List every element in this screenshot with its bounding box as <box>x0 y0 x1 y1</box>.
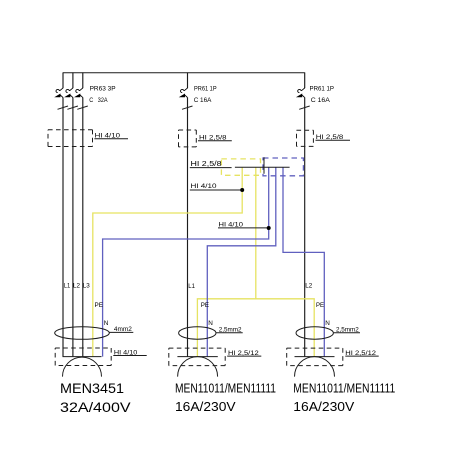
svg-text:MEN3451: MEN3451 <box>60 380 124 396</box>
socket symbol middle: semicircle <box>178 357 218 377</box>
svg-text:L1: L1 <box>64 283 71 290</box>
leader: HI 4/10 label to PE wire with junction dot <box>190 189 242 191</box>
svg-text:16A/230V: 16A/230V <box>175 399 236 414</box>
wire: PE yellow main drop <box>255 167 257 298</box>
svg-text:N: N <box>104 320 109 327</box>
socket box HI 4/10 (left) <box>55 348 111 366</box>
svg-text:PR63 3P: PR63 3P <box>90 85 117 92</box>
breaker: PR61 1P (middle) <box>180 88 192 110</box>
wire: phase L1 upper stub (middle branch) <box>187 72 189 88</box>
conduit box HI 4/10 under PR63 <box>48 130 93 147</box>
svg-text:HI 4/10: HI 4/10 <box>219 222 244 229</box>
socket box HI 2,5/12 (right) <box>287 348 343 366</box>
wire: N blue to right socket <box>283 167 324 356</box>
svg-text:HI 2,5/8: HI 2,5/8 <box>191 159 222 168</box>
svg-text:PR61 1P: PR61 1P <box>310 86 335 93</box>
wire: phase L2 upper stub (left branch) <box>72 72 74 88</box>
breaker: PR63 3P pole 2 <box>66 88 78 110</box>
wire: phase L2 main drop (left branch) <box>72 97 74 356</box>
socket symbol middle: terminal line <box>177 356 217 358</box>
conduit: yellow dashed box HI 2,5/8 <box>221 159 260 175</box>
cable marker ellipse: middle 2,5mm2 <box>179 327 216 339</box>
wire: phase L1 main drop (middle branch) <box>187 97 189 356</box>
breaker: PR63 3P pole 3 <box>76 88 88 110</box>
cable marker ellipse: right 2,5mm2 <box>296 327 333 339</box>
conduit box HI 2,5/8 under right PR61 <box>297 130 314 146</box>
svg-text:L3: L3 <box>83 283 90 290</box>
conduit box HI 2,5/8 under middle PR61 <box>179 130 197 147</box>
svg-text:L2: L2 <box>305 283 312 290</box>
socket box HI 2,5/12 (middle) <box>169 348 225 366</box>
socket symbol right: terminal line <box>295 356 335 358</box>
leader: HI 4/10 label to N wire with junction dot <box>218 227 269 229</box>
svg-text:32A/400V: 32A/400V <box>60 399 131 415</box>
junction dot on N wire <box>267 226 271 230</box>
svg-text:PE: PE <box>316 302 324 309</box>
svg-text:C: C <box>89 97 93 104</box>
breaker: PR61 1P (right) <box>297 88 309 110</box>
breaker: PR63 3P pole 1 <box>56 88 68 110</box>
svg-text:MEN11011/MEN11111: MEN11011/MEN11111 <box>175 380 276 395</box>
svg-text:32A: 32A <box>98 97 108 104</box>
junction dot on PE wire <box>240 188 244 192</box>
socket symbol right: semicircle <box>295 357 335 377</box>
wire: PE yellow to left socket <box>93 167 242 356</box>
svg-text:MEN11011/MEN11111: MEN11011/MEN11111 <box>293 380 395 395</box>
wire: phase L1 main drop (left branch) <box>62 97 64 356</box>
wire: junction bus inside conduit (vertical) <box>263 157 265 174</box>
wire: phase L3 upper stub (left branch) <box>82 72 84 88</box>
svg-text:PR61 1P: PR61 1P <box>194 86 217 93</box>
conduit: blue dashed box <box>263 158 303 176</box>
svg-text:C 16A: C 16A <box>194 97 212 104</box>
wire: N blue to middle socket <box>207 167 275 356</box>
wire: junction bus inside conduit (horizontal) <box>235 166 290 168</box>
svg-text:L1: L1 <box>188 283 195 290</box>
wire: N blue to left socket <box>103 167 269 356</box>
svg-text:16A/230V: 16A/230V <box>293 399 354 414</box>
svg-text:C 16A: C 16A <box>311 97 331 104</box>
wire: PE yellow distribution to middle and right sockets <box>197 299 314 357</box>
wire: phase L3 main drop (left branch) <box>82 97 84 356</box>
cable marker ellipse: left 4mm2 <box>55 327 110 340</box>
wire: supply bus <box>63 72 305 74</box>
socket symbol left: terminal line <box>63 356 102 358</box>
svg-text:PE: PE <box>201 302 210 309</box>
wire: phase L2 main drop (right branch) <box>304 97 306 356</box>
wire: phase L2 upper stub (right branch) <box>304 72 306 88</box>
svg-text:PE: PE <box>95 302 104 309</box>
svg-text:HI 4/10: HI 4/10 <box>191 183 217 190</box>
socket symbol left: semicircle <box>63 357 102 377</box>
svg-text:N: N <box>208 320 213 327</box>
wire: phase L1 upper stub (left branch) <box>62 72 64 88</box>
svg-text:L2: L2 <box>73 283 80 290</box>
svg-text:N: N <box>325 320 330 327</box>
